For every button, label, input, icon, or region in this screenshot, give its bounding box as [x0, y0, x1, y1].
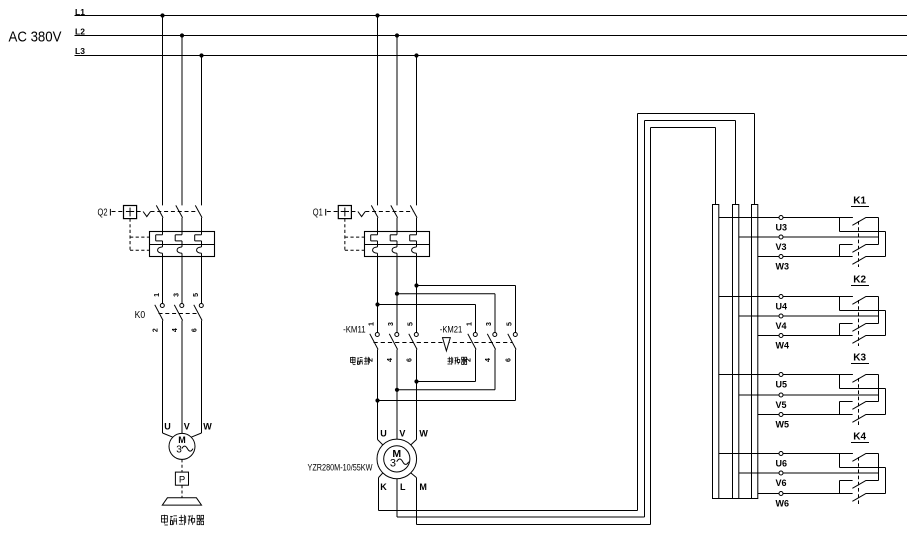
resistor bank bottom tie	[713, 498, 758, 500]
wire rotor M run	[411, 128, 716, 525]
rail L2	[75, 26, 908, 36]
contactor KM21 pole 1 contact	[468, 333, 478, 350]
tap wire W4	[758, 335, 853, 337]
wire L2 to Q2 pole 2	[181, 36, 183, 206]
svg-text:U: U	[164, 421, 171, 431]
KM21 pin 3 label	[486, 322, 493, 326]
wire rotor K run	[379, 114, 755, 511]
svg-text:-KM21: -KM21	[440, 325, 463, 335]
K3 linkage dashed	[858, 378, 860, 425]
K0 pin 6 label	[192, 328, 199, 332]
svg-text:-KM11: -KM11	[343, 325, 366, 335]
tap wire W3	[758, 256, 853, 258]
KM11 pin 6 label	[407, 358, 414, 362]
wire overload to KM11 pole 3	[416, 257, 418, 333]
svg-text:6: 6	[506, 358, 513, 362]
K3 contact W-U	[840, 375, 886, 423]
contactor K0 pole 1 contact	[155, 304, 165, 321]
K2 linkage dashed	[858, 300, 860, 346]
contactor K0 label	[135, 310, 146, 321]
contactor K0 pole 2 contact	[174, 304, 184, 321]
node L2-Q1 junction	[395, 33, 399, 37]
contactor KM21 label	[440, 325, 463, 335]
node rejoin phase1	[375, 398, 379, 402]
wire KM21 out1 to phase3	[417, 350, 476, 382]
svg-text:K1: K1	[853, 196, 866, 207]
label hoist-up (CJK)	[351, 357, 370, 365]
terminal V3	[776, 235, 787, 252]
overload middle magnetic element phase 2	[390, 232, 397, 247]
resistor bank bar 2	[733, 205, 739, 499]
KM11-KM21 linkage dashed	[374, 342, 513, 344]
svg-text:U3: U3	[776, 223, 788, 233]
wire branch phase1 to KM21	[378, 305, 476, 333]
tap wire U4	[719, 296, 853, 298]
K1 contact W-U	[840, 218, 886, 265]
overload left magnetic element phase 1	[156, 232, 163, 247]
svg-text:YZR280M-10/55KW: YZR280M-10/55KW	[308, 463, 373, 473]
KM21 pin 2 label	[466, 358, 473, 362]
breaker Q2 trip linkage	[137, 212, 198, 217]
terminal V4	[776, 314, 787, 331]
breaker Q2 pole 1 contact	[156, 205, 163, 231]
terminal U4	[776, 295, 788, 312]
K3 contact U-V	[852, 375, 878, 402]
KM11 pin 1 label	[369, 322, 376, 326]
svg-text:3: 3	[390, 457, 396, 469]
svg-text:W4: W4	[776, 341, 790, 351]
svg-text:U6: U6	[776, 459, 788, 469]
K0 pin 5 label	[193, 293, 200, 297]
overload block left body	[150, 232, 215, 257]
contactor KM11 pole 1 contact	[370, 333, 380, 350]
svg-text:3: 3	[176, 444, 182, 455]
wire overload to K0 pole 2	[181, 257, 183, 304]
wire L2 to Q1 pole 2	[396, 36, 398, 206]
svg-text:3: 3	[174, 293, 181, 297]
KM11 pin 5 label	[408, 322, 415, 326]
mechanical interlock triangle	[443, 338, 451, 351]
overload block middle body	[365, 232, 430, 257]
wire KM21 out2 to phase2	[397, 350, 495, 390]
brake coil box P	[175, 472, 188, 485]
brake link dashed upper	[181, 459, 183, 472]
wire overload to KM11 pole 1	[377, 257, 379, 333]
motor M1 stator terminal labels	[380, 429, 428, 439]
K0 pin 4 label	[172, 328, 179, 332]
tap wire W5	[758, 414, 853, 416]
svg-text:W3: W3	[776, 262, 790, 272]
tap wire V3	[739, 236, 879, 238]
svg-text:V6: V6	[776, 478, 787, 488]
overload left thermal element phase 1	[158, 247, 163, 257]
svg-text:4: 4	[485, 358, 492, 362]
KM21 pin 4 label	[485, 358, 492, 362]
wire K0 to motor V	[181, 321, 183, 434]
svg-text:AC 380V: AC 380V	[9, 29, 62, 46]
svg-text:V3: V3	[776, 242, 787, 252]
svg-text:P: P	[179, 474, 185, 485]
svg-text:V4: V4	[776, 321, 787, 331]
svg-text:V: V	[399, 429, 405, 439]
tap wire U3	[719, 217, 853, 219]
breaker Q2 label	[98, 208, 111, 219]
motor M2 terminal labels	[164, 421, 212, 431]
motor M2 brake motor	[169, 433, 195, 459]
tap wire U5	[719, 374, 853, 376]
contactor KM21 pole 3 contact	[508, 333, 518, 350]
node branch phase1	[375, 302, 379, 306]
K0 pin 3 label	[174, 293, 181, 297]
label AC 380V	[9, 29, 62, 46]
node rejoin phase2	[395, 388, 399, 392]
K0 pin 2 label	[153, 328, 160, 332]
svg-text:V: V	[184, 421, 190, 431]
svg-text:K: K	[380, 482, 387, 492]
svg-text:L: L	[400, 482, 406, 492]
svg-text:1: 1	[467, 322, 474, 326]
K4 contact U-V	[852, 454, 878, 481]
terminal V6	[776, 471, 787, 488]
svg-text:1: 1	[369, 322, 376, 326]
node branch phase3	[414, 283, 418, 287]
overload left magnetic element phase 2	[175, 232, 182, 247]
KM21 pin 5 label	[507, 322, 514, 326]
overload left magnetic element phase 3	[195, 232, 202, 247]
KM21 pin 1 label	[467, 322, 474, 326]
svg-text:6: 6	[192, 328, 199, 332]
KM21 pin 6 label	[506, 358, 513, 362]
breaker Q2 pole 3 contact	[195, 205, 202, 231]
svg-text:K0: K0	[135, 310, 146, 321]
contactor K2 label	[851, 275, 869, 286]
wire rotor L run	[397, 121, 736, 518]
svg-text:W6: W6	[776, 499, 790, 509]
K0 linkage dashed	[159, 313, 199, 315]
breaker Q1 pole 2 contact	[391, 205, 398, 231]
brake link dashed lower	[181, 485, 183, 498]
K3 contact V-W	[840, 402, 879, 415]
K2 contact W-U	[840, 297, 886, 344]
brake shoe symbol	[162, 498, 201, 505]
contactor KM11 pole 2 contact	[389, 333, 399, 350]
svg-text:2: 2	[153, 328, 160, 332]
terminal W5	[776, 413, 790, 430]
breaker Q1 pole 3 contact	[410, 205, 417, 231]
K2 contact U-V	[852, 297, 878, 324]
node branch phase2	[395, 292, 399, 296]
wire KM11 out U to motor	[378, 350, 383, 445]
label hoist-down (CJK)	[448, 357, 467, 365]
svg-text:3: 3	[486, 322, 493, 326]
K4 linkage dashed	[858, 457, 860, 504]
KM11 pin 3 label	[388, 322, 395, 326]
breaker Q1 pole 1 contact	[371, 205, 378, 231]
K1 contact U-V	[852, 218, 878, 245]
contactor K4 label	[851, 432, 869, 443]
contactor K1 label	[851, 196, 869, 207]
K0 pin 1 label	[154, 293, 161, 297]
node L3-Q1 junction	[414, 53, 418, 57]
node rejoin phase3	[414, 379, 418, 383]
node L1-Q1 junction	[375, 13, 379, 17]
breaker Q2 operator box	[112, 206, 137, 219]
wire KM11 out W to motor	[411, 350, 417, 445]
tap wire V5	[739, 394, 879, 396]
breaker Q1 label	[313, 208, 326, 219]
overload middle thermal element phase 2	[392, 247, 397, 257]
breaker Q1 operator box	[327, 206, 352, 219]
svg-text:U5: U5	[776, 380, 788, 390]
K4 contact W-U	[840, 454, 886, 502]
wire KM11 out V to motor	[396, 350, 398, 440]
KM11 pin 4 label	[387, 358, 394, 362]
K1 linkage dashed	[858, 221, 860, 267]
motor M1 nameplate label	[308, 463, 373, 473]
svg-text:5: 5	[193, 293, 200, 297]
svg-text:V5: V5	[776, 400, 787, 410]
node L1-Q2 junction	[160, 13, 164, 17]
tap wire U6	[719, 453, 853, 455]
svg-text:L1: L1	[75, 7, 85, 17]
rail L3	[75, 46, 908, 56]
contactor K3 label	[851, 353, 869, 364]
contactor KM11 label	[343, 325, 366, 335]
svg-text:Q1: Q1	[313, 208, 323, 219]
node L3-Q2 junction	[199, 53, 203, 57]
resistor bank bar 3	[752, 205, 758, 499]
svg-text:K3: K3	[853, 353, 866, 364]
svg-text:4: 4	[172, 328, 179, 332]
breaker Q2 control linkage to overload	[130, 219, 149, 251]
contactor K0 pole 3 contact	[194, 304, 204, 321]
overload middle thermal element phase 1	[373, 247, 378, 257]
overload left thermal element phase 2	[177, 247, 182, 257]
svg-text:M: M	[419, 482, 427, 492]
wire overload to K0 pole 1	[162, 257, 164, 304]
terminal U3	[776, 216, 788, 233]
svg-text:W5: W5	[776, 420, 790, 430]
svg-text:W: W	[203, 421, 212, 431]
contactor KM21 pole 2 contact	[487, 333, 497, 350]
terminal V5	[776, 393, 787, 410]
wire L3 to Q2 pole 3	[201, 56, 203, 206]
K4 contact V-W	[840, 481, 879, 494]
K2 contact V-W	[840, 324, 879, 336]
tap wire V6	[739, 472, 879, 474]
wire L1 to Q2 pole 1	[162, 16, 164, 206]
resistor bank bar 1	[713, 205, 719, 499]
wire overload to K0 pole 3	[201, 257, 203, 304]
wire branch phase3 to KM21	[417, 286, 516, 333]
tap wire V4	[739, 315, 879, 317]
wire K0 to motor W	[191, 321, 201, 438]
terminal U6	[776, 452, 788, 469]
wire branch phase2 to KM21	[397, 294, 495, 333]
svg-text:L3: L3	[75, 46, 85, 56]
wire KM21 out3 to phase1	[378, 350, 516, 401]
breaker Q1 control linkage to overload	[345, 219, 364, 251]
terminal W4	[776, 334, 790, 351]
overload middle magnetic element phase 3	[410, 232, 417, 247]
svg-text:5: 5	[507, 322, 514, 326]
label electromagnetic brake (CJK)	[161, 515, 203, 525]
svg-text:K4: K4	[853, 432, 866, 443]
svg-text:U: U	[380, 429, 387, 439]
K1 contact V-W	[840, 245, 879, 257]
svg-text:3: 3	[388, 322, 395, 326]
terminal W6	[776, 492, 790, 509]
wire L1 to Q1 pole 1	[377, 16, 379, 206]
svg-text:W: W	[419, 429, 428, 439]
wire overload to KM11 pole 2	[396, 257, 398, 333]
svg-text:1: 1	[154, 293, 161, 297]
svg-text:K2: K2	[853, 275, 866, 286]
terminal W3	[776, 255, 790, 272]
overload middle thermal element phase 3	[412, 247, 417, 257]
tap wire W6	[758, 493, 853, 495]
terminal U5	[776, 373, 788, 390]
wire K0 to motor U	[163, 321, 173, 438]
node L2-Q2 junction	[180, 33, 184, 37]
KM11 pin 2 label	[368, 358, 375, 362]
contactor KM11 pole 3 contact	[409, 333, 419, 350]
motor M1 wound-rotor motor	[377, 439, 417, 479]
rail L1	[75, 7, 908, 17]
svg-text:Q2: Q2	[98, 208, 108, 219]
overload left thermal element phase 3	[197, 247, 202, 257]
svg-text:5: 5	[408, 322, 415, 326]
wire L3 to Q1 pole 3	[416, 56, 418, 206]
svg-text:4: 4	[387, 358, 394, 362]
svg-text:L2: L2	[75, 26, 85, 36]
svg-text:6: 6	[407, 358, 414, 362]
overload middle magnetic element phase 1	[371, 232, 378, 247]
breaker Q1 trip linkage	[351, 212, 413, 217]
breaker Q2 pole 2 contact	[176, 205, 183, 231]
motor M1 rotor terminal labels	[380, 482, 427, 492]
svg-text:U4: U4	[776, 302, 788, 312]
